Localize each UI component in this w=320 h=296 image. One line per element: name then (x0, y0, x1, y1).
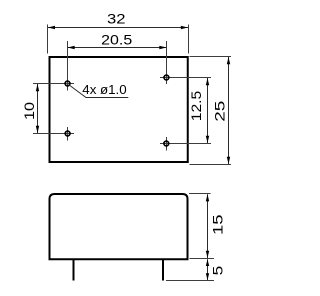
svg-text:32: 32 (107, 11, 126, 27)
svg-text:20.5: 20.5 (101, 32, 132, 48)
svg-text:25: 25 (212, 100, 228, 121)
svg-text:15: 15 (210, 214, 226, 235)
svg-text:12.5: 12.5 (188, 91, 204, 122)
svg-text:4x ø1.0: 4x ø1.0 (82, 82, 126, 97)
svg-text:5: 5 (209, 266, 225, 276)
svg-text:10: 10 (21, 102, 37, 120)
